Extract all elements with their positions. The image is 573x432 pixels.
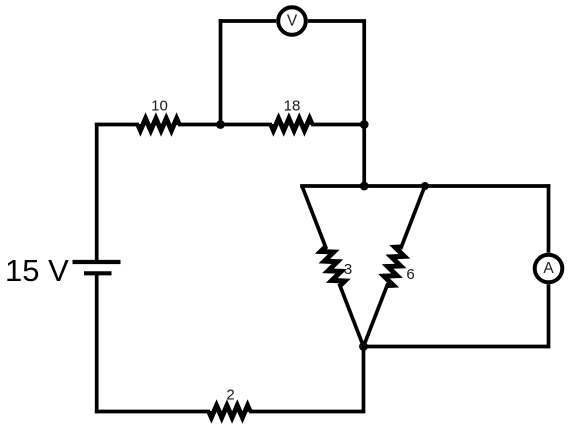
resistor R 10ohm [135,112,182,137]
voltmeter V [278,7,306,35]
svg-text:2: 2 [226,387,234,404]
node triangle top right tap [421,182,429,190]
wire voltmeter loop top-right segment [308,19,366,23]
wire left vertical lower (battery to bottom corner) [95,273,99,413]
wire bottom horizontal right segment [249,410,364,414]
resistor R 3ohm [313,240,353,293]
wire left diagonal upper segment [302,186,326,249]
ammeter A [535,255,563,283]
svg-text:A: A [543,260,554,277]
wire voltmeter branch left vertical [219,19,223,124]
wire right vertical upper (to ammeter) [547,184,551,253]
resistor R 6ohm [374,240,414,293]
wire left vertical upper (corner to battery) [95,123,99,262]
wire bottom horizontal left segment [95,410,210,414]
resistor R 18ohm [268,112,315,137]
wire left diagonal lower segment [339,283,363,346]
svg-text:3: 3 [344,261,352,278]
wire right diagonal lower segment [364,283,388,346]
node triangle top center [360,182,369,191]
svg-text:18: 18 [284,97,301,114]
wire bottom-right horizontal [364,345,549,349]
node junction right end of top wire [360,120,369,129]
wire top-left horizontal (left corner to R10) [95,123,139,127]
wire voltmeter loop top-left segment [219,19,277,23]
battery 15V short plate [84,271,112,275]
svg-text:V: V [287,13,298,30]
node triangle bottom vertex [359,342,368,351]
node junction between R10 and R18 [216,120,225,129]
svg-text:10: 10 [151,97,168,114]
svg-text:6: 6 [406,266,414,283]
wire right diagonal upper segment [401,186,425,249]
resistor R 2ohm [206,399,253,424]
wire between R10 and R18 [178,123,272,127]
svg-text:15 V: 15 V [5,253,69,288]
wire vertical from top wire down to triangle top [362,125,366,187]
battery 15V long plate [73,260,121,264]
wire triangle top horizontal [300,184,550,188]
wire voltmeter branch right vertical down to top wire [362,21,366,125]
wire right vertical lower (ammeter to bottom-right corner) [547,284,551,348]
wire vertical from triangle vertex down to bottom wire [362,347,366,414]
wire R18 to right end of top wire [311,123,364,127]
